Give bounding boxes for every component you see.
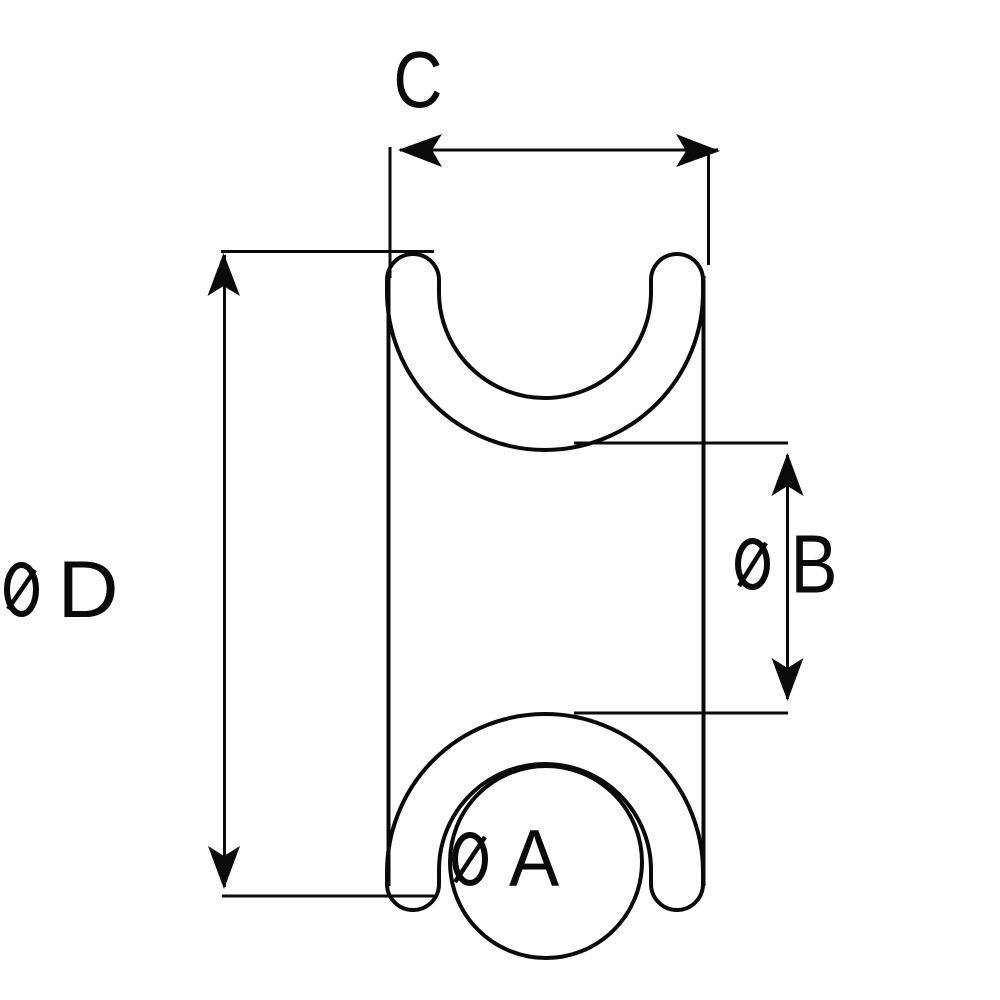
dimension C: left arrowhead	[398, 134, 442, 167]
dimension B: shaft	[786, 455, 789, 699]
dimension D: shaft	[223, 255, 226, 887]
label D diameter symbol	[7, 565, 36, 614]
dimension B: top arrowhead	[772, 453, 804, 496]
dimension C: left extension line	[389, 147, 392, 278]
center hole circle A	[450, 766, 642, 958]
dimension C: right extension line	[707, 152, 710, 265]
label A diameter symbol	[455, 835, 485, 883]
dimension D: top arrowhead	[208, 253, 241, 296]
svg-text:C: C	[393, 35, 442, 124]
ring right edge	[702, 276, 706, 886]
ring left edge	[387, 276, 391, 886]
bottom arch (lower groove)	[387, 714, 703, 910]
svg-text:A: A	[509, 812, 560, 903]
svg-text:D: D	[58, 544, 119, 635]
dimension C: right arrowhead	[676, 134, 720, 167]
dimension D: top extension line	[221, 250, 434, 253]
dimension B: bottom extension line	[574, 712, 788, 715]
dimension D: bottom extension line	[222, 895, 435, 898]
label B diameter symbol	[738, 541, 767, 587]
dimension B: top extension line	[574, 442, 788, 445]
top rope groove (saddle crescent)	[387, 254, 703, 450]
dimension D: bottom arrowhead	[208, 846, 240, 889]
dimension B: bottom arrowhead	[772, 658, 804, 701]
svg-text:B: B	[791, 518, 838, 611]
dimension C: shaft	[400, 149, 718, 152]
